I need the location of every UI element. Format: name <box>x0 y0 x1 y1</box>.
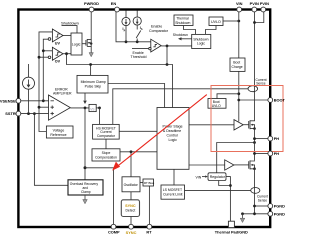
wire power stage to HS driver <box>189 124 234 126</box>
wire: VSENSE up to comparators <box>43 39 48 101</box>
svg-text:PWRGD: PWRGD <box>84 1 99 6</box>
wire RT bias to RT pin <box>148 186 150 225</box>
red annotation arrow <box>112 95 207 171</box>
wire thermal to shutdown logic <box>184 26 196 35</box>
node SSTR current source <box>27 112 30 115</box>
svg-text:Voltage: Voltage <box>53 128 65 132</box>
wire: branch to lower comparator top input <box>43 50 52 52</box>
wire: min clamp pulse skip to power stage <box>108 84 165 108</box>
comparator UV (upper) <box>48 29 63 45</box>
svg-text:AMPLIFIER: AMPLIFIER <box>53 91 72 95</box>
wire HS comp to slope <box>105 139 107 149</box>
pin COMP <box>111 224 116 229</box>
wire: branch to lower comparator bubble input <box>39 56 48 58</box>
wire power stage to LS driver <box>189 164 225 166</box>
node ih <box>136 40 139 43</box>
pin PH 1 <box>268 136 273 141</box>
PGND wires <box>255 205 269 207</box>
pin RT <box>147 224 152 229</box>
svg-text:Logic: Logic <box>169 138 178 142</box>
pin BOOT <box>268 98 273 103</box>
node <box>42 49 45 52</box>
pin PVIN 1 <box>252 7 257 12</box>
LS mosfet <box>234 160 256 170</box>
LS MOSFET current limit box <box>161 185 185 199</box>
wire: SSTR down to overload recovery box <box>34 114 68 186</box>
svg-text:Compensation: Compensation <box>95 155 117 159</box>
IC outer border <box>18 10 270 228</box>
svg-text:Charge: Charge <box>232 65 243 69</box>
slope compensation box <box>92 149 120 161</box>
node OV output <box>65 52 68 55</box>
svg-text:BOOT: BOOT <box>274 98 286 103</box>
arrow from min clamp down to comp node <box>84 93 86 101</box>
wire uvlo to VIN rail <box>223 20 239 22</box>
svg-text:VS: VS <box>90 107 94 111</box>
pwrgd mosfet <box>82 11 92 53</box>
current source I-SS <box>23 64 35 114</box>
svg-text:Logic: Logic <box>197 42 205 46</box>
svg-text:SSTR: SSTR <box>5 111 16 116</box>
top pins <box>84 1 269 12</box>
svg-text:Minimum Clamp: Minimum Clamp <box>81 80 106 84</box>
svg-text:Sense: Sense <box>258 198 268 202</box>
regulator output wire <box>226 177 230 226</box>
node on shutdown rail <box>89 63 92 66</box>
EN comp output <box>161 45 192 47</box>
svg-text:Logic: Logic <box>72 43 81 47</box>
wire sync detect to oscillator <box>130 192 132 200</box>
shutdown arrow out of logic box <box>173 33 192 40</box>
ground arrow under overload box <box>84 195 86 200</box>
wire to PH pin 2 <box>255 153 269 155</box>
wire error amp node down to overload + COMP <box>84 108 86 180</box>
HS gate driver <box>234 120 243 130</box>
wire to PH pin 1 <box>255 138 269 140</box>
VIN regulator <box>196 173 227 181</box>
shutdown label wire top-left <box>61 21 79 33</box>
bottom pins <box>108 221 248 235</box>
VIN rail down to boot charge <box>238 11 240 58</box>
overload recovery box <box>68 180 103 195</box>
svg-text:Thermal Pad/GND: Thermal Pad/GND <box>215 230 248 235</box>
svg-text:SYNC: SYNC <box>125 204 136 208</box>
voltage reference box <box>46 126 73 138</box>
pin EN <box>115 7 120 12</box>
HS MOSFET current comparator box <box>93 124 120 139</box>
svg-text:PVIN PVIN: PVIN PVIN <box>250 1 269 6</box>
svg-text:SYNC: SYNC <box>126 230 137 235</box>
wire oscillator up to slope wire <box>130 152 132 177</box>
node <box>33 112 36 115</box>
wire HS comp to power stage <box>119 130 157 132</box>
svg-text:Reference: Reference <box>50 133 66 137</box>
RT bias box <box>143 179 154 186</box>
oscillator box <box>122 177 140 192</box>
wire: HS current sense horizontal <box>113 89 248 125</box>
wire uvlo to shutdown logic <box>206 26 217 35</box>
ground arrow LS <box>242 214 244 218</box>
wire: min clamp top branch <box>90 65 92 76</box>
wire: OV output to logic <box>63 53 71 55</box>
pin PGND 1 <box>268 204 273 209</box>
PVIN rail <box>254 11 256 121</box>
enable threshold wire and label <box>132 48 149 50</box>
node EN comp output down-branch joins rail <box>166 63 169 66</box>
wire PH feedback to regulator column <box>217 143 255 173</box>
wire osc to RT bias <box>140 182 143 184</box>
svg-text:Oscillator: Oscillator <box>124 183 139 187</box>
wire: vref rail up to comparator bubbles <box>39 32 52 132</box>
thermal shutdown box <box>174 15 193 26</box>
svg-text:Shutdown: Shutdown <box>173 33 188 37</box>
node <box>38 56 41 59</box>
svg-text:OV: OV <box>55 60 61 64</box>
pin PGND 2 <box>268 211 273 216</box>
svg-text:PH: PH <box>274 151 280 156</box>
svg-text:Shutdown: Shutdown <box>175 21 190 25</box>
svg-text:Shutdown: Shutdown <box>61 21 79 26</box>
svg-text:RT: RT <box>146 230 152 235</box>
svg-text:Pulse Skip: Pulse Skip <box>85 84 102 88</box>
SYNC detect box <box>121 200 139 217</box>
svg-text:VSENSE: VSENSE <box>0 98 16 103</box>
EN wire down <box>116 11 151 42</box>
wire slope to power stage <box>120 151 157 153</box>
LS current sense ellipse <box>251 188 268 203</box>
LS source column <box>254 169 256 214</box>
PH node column <box>254 128 256 160</box>
comparator OV (lower) <box>48 47 63 63</box>
svg-text:PGND: PGND <box>274 204 285 209</box>
wire: UV output to logic <box>63 35 71 37</box>
power stage box <box>157 108 189 170</box>
HS current sense ellipse <box>248 78 267 92</box>
pin PVIN 2 <box>261 7 266 12</box>
svg-text:Threshold: Threshold <box>131 55 147 59</box>
node <box>38 106 41 109</box>
boot rail to HS driver <box>238 120 240 123</box>
ground arrow pwrgd <box>89 53 93 57</box>
error amplifier <box>49 87 72 120</box>
minimum clamp pulse skip box <box>77 75 108 93</box>
wire: VSENSE from pin to error amp minus <box>18 100 49 102</box>
svg-text:Current Limit: Current Limit <box>163 192 182 196</box>
svg-text:VIN: VIN <box>196 175 202 179</box>
pin PH 2 <box>268 151 273 156</box>
svg-text:UV: UV <box>55 41 61 45</box>
svg-text:Control: Control <box>167 134 179 138</box>
right pins <box>268 98 286 217</box>
node VSENSE branch <box>42 99 45 102</box>
node ip <box>125 40 128 43</box>
HS mosfet <box>243 120 256 130</box>
pin VIN <box>237 7 242 12</box>
svg-text:& Deadtime: & Deadtime <box>163 129 181 133</box>
wire: vref to error amp plus <box>39 106 49 108</box>
logic box <box>71 33 82 55</box>
thermal pad pin <box>228 221 234 227</box>
boot charge box <box>230 58 245 71</box>
svg-text:Comparator: Comparator <box>97 134 116 138</box>
svg-text:UVLO: UVLO <box>211 20 221 24</box>
svg-text:RT Bias: RT Bias <box>144 181 155 185</box>
wire LS limit to current sense <box>185 189 251 191</box>
boot UVLO box <box>208 99 226 109</box>
boot rail down <box>238 71 240 121</box>
shutdown logic box <box>192 34 211 48</box>
wire: lower OV comparator output to power stage (long route) <box>67 54 173 108</box>
current source Ip <box>122 11 130 42</box>
wire sync detect to SYNC pin <box>130 217 132 225</box>
pin PWRGD <box>89 7 94 12</box>
pin VSENSE <box>16 98 21 103</box>
left pins <box>0 98 21 116</box>
wire: SSTR to error amp <box>18 113 49 115</box>
svg-text:UVLO: UVLO <box>212 104 221 108</box>
pin SYNC <box>129 224 134 229</box>
svg-text:Clamp: Clamp <box>81 190 91 194</box>
enable comparator <box>149 39 162 52</box>
svg-text:Detect: Detect <box>125 209 135 213</box>
svg-text:Comparator: Comparator <box>149 29 169 33</box>
UVLO box <box>209 17 223 26</box>
svg-text:COMP: COMP <box>108 230 120 235</box>
svg-text:PH: PH <box>274 136 280 141</box>
current source Ih with switch <box>133 11 143 42</box>
error amp output wire <box>70 107 89 109</box>
VS box <box>89 104 96 111</box>
LS gate driver <box>225 160 234 170</box>
wire boot rail to boot uvlo <box>217 94 239 99</box>
svg-text:Regulator: Regulator <box>210 175 226 179</box>
wire to BOOT pin <box>239 99 268 101</box>
wire power stage to LS current limit <box>173 169 175 185</box>
svg-text:PGND: PGND <box>274 211 285 216</box>
output continues <box>96 107 99 109</box>
svg-text:EN: EN <box>111 1 117 6</box>
svg-text:VIN: VIN <box>236 1 243 6</box>
red highlight rectangle <box>211 86 283 152</box>
pin SSTR <box>16 111 21 116</box>
